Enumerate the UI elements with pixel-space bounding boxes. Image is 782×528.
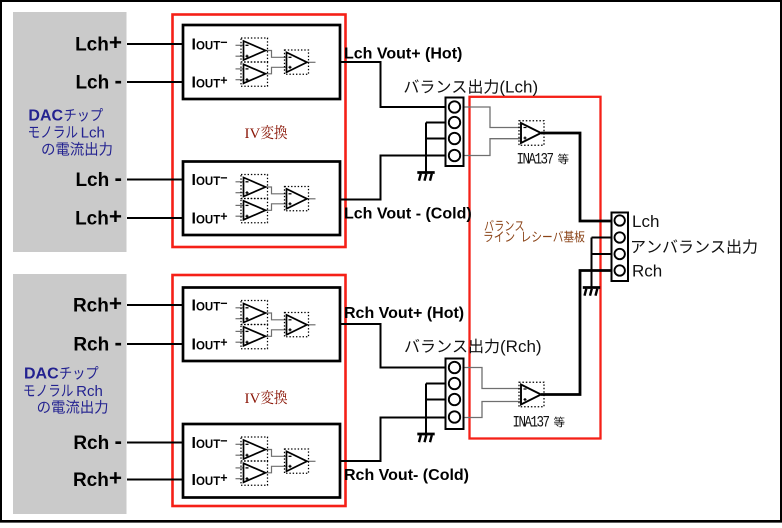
svg-text:Rch -: Rch - [73, 330, 122, 356]
svg-text:Lch+: Lch+ [75, 30, 122, 56]
op-amp cluster (U1): dual input amps + summing amp, dashed IC outlines [236, 38, 316, 86]
label balanced output (Rch) [405, 339, 499, 354]
wire Lch+ to U1 Iout- [127, 43, 183, 45]
ground (J1 shield) [417, 123, 434, 181]
op-amp U INA137 (Rch) triangle [521, 385, 541, 405]
svg-text:Rch Vout- (Cold): Rch Vout- (Cold) [344, 467, 469, 484]
IV stage U1 (Lch+) box [183, 25, 340, 99]
wire Lch Vout- (Cold) to connector J1 pin4 [340, 156, 446, 200]
label balance line receiver board line2 [485, 231, 585, 243]
svg-text:IV: IV [245, 391, 261, 407]
op-amp U INA137 (Lch) dashed outline [519, 121, 544, 146]
svg-text:(Rch): (Rch) [500, 337, 542, 356]
wire J2 pin2 to ground [426, 383, 455, 385]
wire J2 pin1 to U6 inverting input [461, 368, 521, 389]
svg-text:Rch -: Rch - [73, 429, 122, 455]
connector J1 balanced output (Lch) [446, 98, 464, 167]
op-amp cluster (U4): dual input amps + summing amp, dashed IC outlines [236, 437, 316, 485]
wire Rch+ to U4 Iout+ [127, 479, 183, 481]
wire Lch+ to U2 Iout+ [127, 217, 183, 219]
svg-text:Rch Vout+ (Hot): Rch Vout+ (Hot) [344, 305, 464, 322]
wire Lch- to U1 Iout+ [127, 81, 183, 83]
connector J2 balanced output (Rch) [446, 359, 464, 430]
svg-text:DAC: DAC [28, 108, 63, 125]
svg-text:INA137: INA137 [517, 151, 554, 168]
wire J2 pin3 to ground [426, 399, 455, 401]
svg-text:Lch Vout+ (Hot): Lch Vout+ (Hot) [344, 45, 462, 62]
op-amp U INA137 (Lch) triangle [521, 123, 541, 143]
svg-text:DAC: DAC [24, 366, 59, 383]
wire J3 pin2 to ground [592, 237, 620, 239]
connector J3 unbalanced output [612, 213, 629, 282]
label balanced output (Lch) [404, 79, 498, 94]
wire U5 output to J3 pin1 (Lch unbalanced) [541, 133, 614, 221]
ground (J3 shield) [583, 238, 600, 296]
wire J3 pin3 to ground [592, 253, 620, 255]
label unbalanced output [632, 239, 757, 254]
wire U6 output to J3 pin4 (Rch unbalanced) [541, 271, 614, 395]
wire Rch- to U4 Iout- [127, 442, 183, 444]
IV conversion board outline (Lch) red box [173, 15, 346, 248]
wire Rch Vout- (Cold) to connector J2 pin4 [340, 418, 446, 462]
wire Rch+ to U3 Iout- [127, 304, 183, 306]
op-amp cluster (U3): dual input amps + summing amp, dashed IC outlines [236, 301, 316, 349]
balanced line receiver board outline red box [470, 97, 601, 439]
op-amp cluster (U2): dual input amps + summing amp, dashed IC outlines [236, 175, 316, 223]
svg-text:Lch: Lch [632, 212, 659, 231]
wire J1 pin2 to ground [426, 122, 455, 124]
wire Lch- to U2 Iout- [127, 179, 183, 181]
op-amp U INA137 (Rch) dashed outline [519, 382, 544, 407]
svg-text:Lch -: Lch - [75, 68, 122, 94]
wire J2 pin4 to U6 non-inverting input [461, 402, 521, 418]
wire Rch Vout+ (Hot) to connector J2 pin1 [340, 324, 446, 368]
DAC chip block (Lch) gray panel [13, 12, 127, 252]
wire Lch Vout+ (Hot) to connector J1 pin1 [340, 62, 446, 107]
DAC chip block (Rch) gray panel [13, 274, 127, 514]
svg-text:Rch+: Rch+ [73, 291, 122, 317]
label balance line receiver board line1 [485, 220, 524, 231]
IV stage U2 (Lch-) box [183, 162, 340, 236]
svg-text:Lch+: Lch+ [75, 204, 122, 230]
svg-text:Lch: Lch [77, 125, 105, 142]
svg-text:(Lch): (Lch) [499, 78, 538, 97]
svg-text:Rch+: Rch+ [73, 466, 122, 492]
wire J1 pin4 to U5 non-inverting input [460, 139, 521, 156]
wire J1 pin1 to U5 inverting input [460, 107, 521, 128]
IV stage U4 (Rch-) box [183, 424, 340, 498]
svg-text:IV: IV [245, 126, 261, 142]
svg-text:Rch: Rch [72, 383, 103, 400]
wire Rch- to U3 Iout+ [127, 343, 183, 345]
wire J1 pin3 to ground [426, 138, 455, 140]
svg-text:Lch -: Lch - [75, 166, 122, 192]
svg-text:INA137: INA137 [513, 414, 550, 431]
svg-text:Rch: Rch [632, 262, 662, 281]
svg-text:Lch Vout - (Cold): Lch Vout - (Cold) [344, 205, 472, 222]
IV stage U3 (Rch+) box [183, 288, 340, 362]
IV conversion board outline (Rch) red box [173, 275, 346, 506]
ground (J2 shield) [417, 384, 434, 443]
